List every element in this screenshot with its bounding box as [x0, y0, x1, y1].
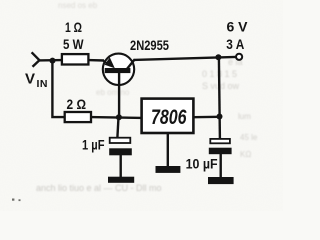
node J2: base/C1 junction [116, 114, 122, 120]
svg-text:2 Ω: 2 Ω [67, 96, 87, 112]
capacitor C2 bottom plate [209, 148, 232, 155]
svg-text:IN: IN [37, 78, 49, 90]
wire: R1 to Q1 emitter [88, 59, 104, 62]
capacitor C1 (1 uF) top plate [110, 138, 131, 143]
wire: C2 to ground [219, 154, 221, 178]
node J1: Vin junction [50, 58, 56, 64]
capacitor C2 (10 uF) top plate [210, 139, 230, 143]
svg-text:1 Ω: 1 Ω [65, 19, 82, 35]
svg-text:5 W: 5 W [63, 36, 84, 52]
wire: C1 to ground [119, 155, 121, 178]
ground C2 [208, 177, 234, 184]
regulator U1 7806 box [142, 99, 194, 133]
node J3: output junction [215, 54, 221, 60]
input terminal Vin chevron [32, 52, 40, 67]
node J4: U1 output junction [217, 114, 223, 120]
svg-text:2N2955: 2N2955 [130, 37, 169, 53]
wire: J2 down to C1 [117, 117, 118, 137]
wire: J1 down and right to R2 [52, 60, 65, 118]
wire: U1 ground lead [167, 134, 169, 167]
svg-text:7806: 7806 [151, 106, 187, 129]
resistor R2 (2 ohm) [65, 112, 91, 122]
svg-text:1 µF: 1 µF [82, 137, 105, 153]
label VIN [25, 71, 48, 90]
output terminal circle [236, 54, 242, 60]
wire: output rail down to C2 [219, 57, 220, 138]
wire: Vin tip to R1 [39, 59, 63, 62]
svg-text:V: V [25, 71, 35, 88]
resistor R1 (1 ohm 5 W) [62, 54, 89, 64]
ground U1 [156, 166, 181, 173]
svg-text:6 V: 6 V [227, 19, 249, 35]
speck marks bottom left [12, 199, 21, 202]
capacitor C1 bottom plate [109, 148, 132, 155]
wire: R2 to U1 input [91, 116, 143, 119]
wire: Q1 collector to output terminal [134, 57, 236, 60]
svg-text:10 µF: 10 µF [186, 155, 218, 171]
ground C1 [108, 177, 134, 183]
transistor Q1 2N2955 [103, 54, 135, 117]
wire: U1 output to rail [194, 116, 219, 119]
svg-text:3 A: 3 A [226, 36, 244, 52]
